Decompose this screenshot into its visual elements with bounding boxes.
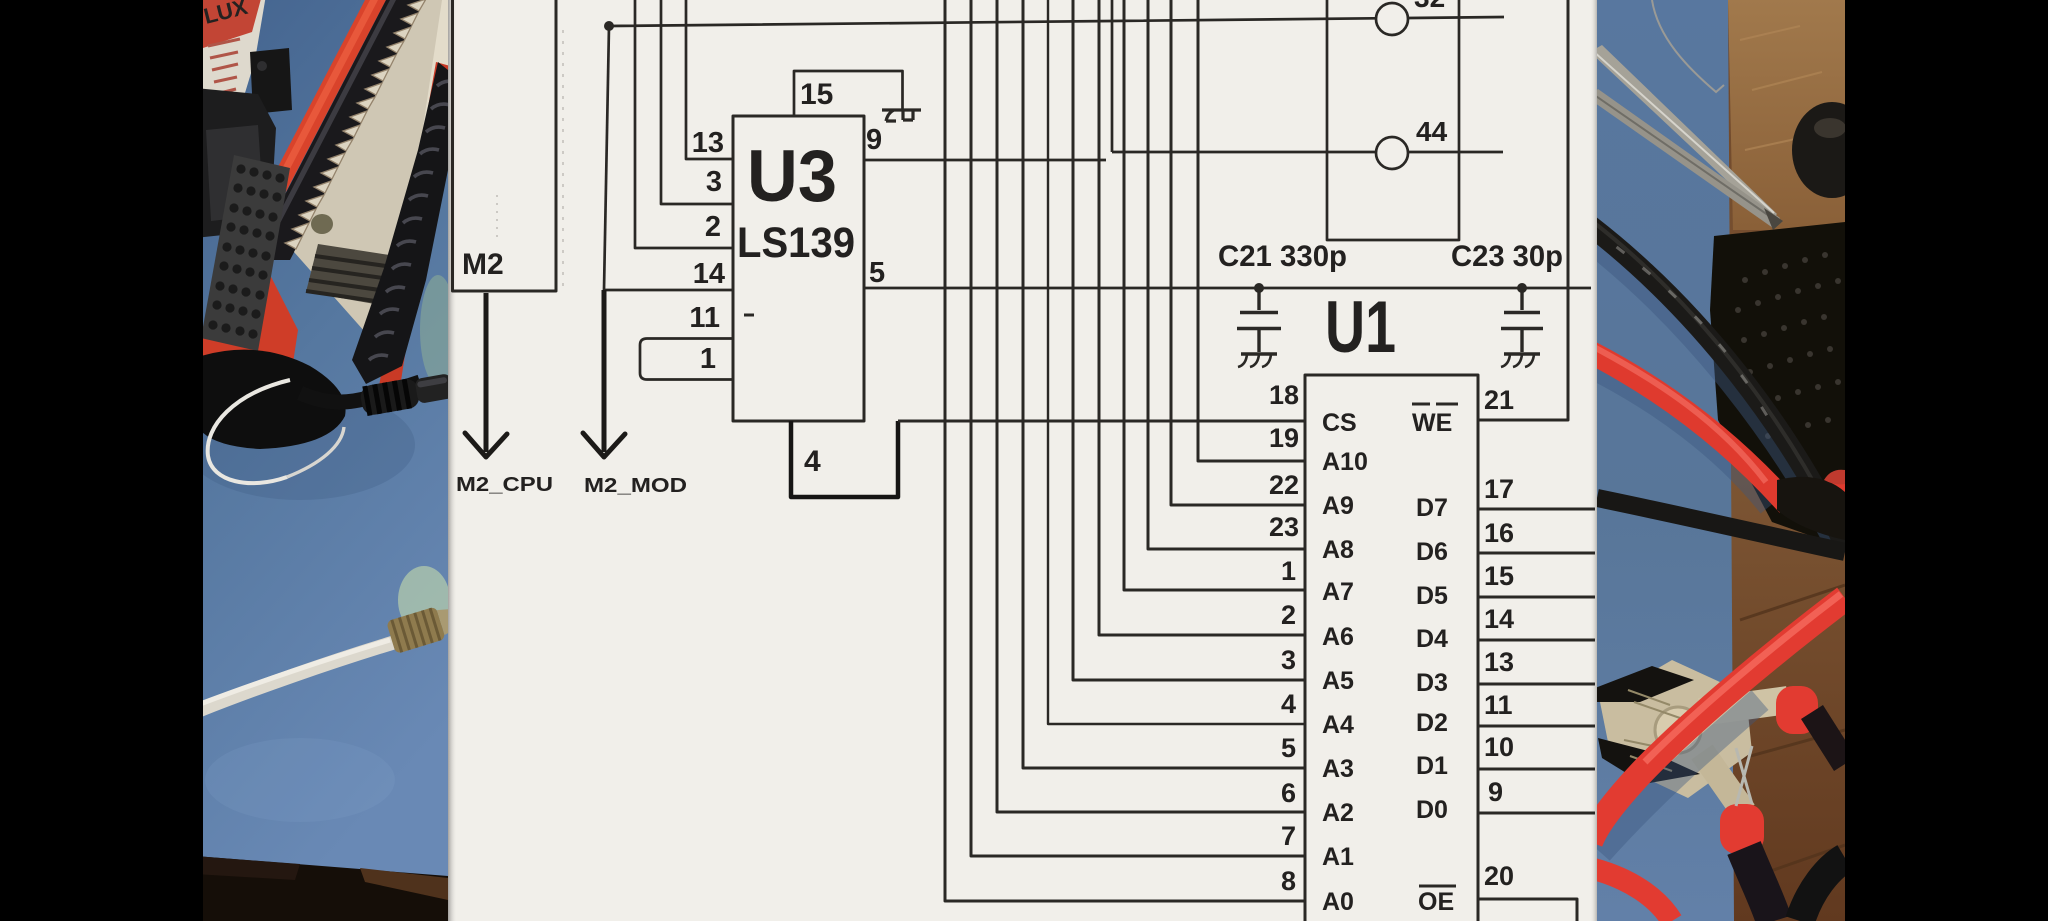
svg-text:4: 4 [1281,689,1296,719]
svg-text:19: 19 [1269,423,1299,453]
svg-text:3: 3 [706,166,722,198]
svg-text:D4: D4 [1416,625,1448,653]
svg-text:A0: A0 [1322,888,1354,916]
svg-text:A3: A3 [1322,755,1354,783]
svg-text:M2: M2 [462,248,504,281]
svg-text:D5: D5 [1416,582,1448,610]
svg-text:22: 22 [1269,470,1299,500]
svg-text:20: 20 [1484,861,1514,891]
svg-text:A7: A7 [1322,578,1354,606]
svg-text:A1: A1 [1322,843,1354,871]
svg-text:14: 14 [1484,604,1514,634]
svg-text:D7: D7 [1416,494,1448,522]
svg-text:5: 5 [869,257,885,289]
svg-text:15: 15 [800,78,833,111]
svg-text:44: 44 [1416,116,1448,147]
svg-text:A5: A5 [1322,667,1354,695]
svg-text:9: 9 [866,124,882,156]
svg-text:WE: WE [1412,409,1452,437]
svg-text:4: 4 [804,445,821,478]
svg-text:A8: A8 [1322,536,1354,564]
svg-text:M2_MOD: M2_MOD [584,474,687,497]
svg-text:1: 1 [1281,556,1296,586]
svg-text:A4: A4 [1322,711,1354,739]
svg-text:11: 11 [689,302,720,334]
svg-text:17: 17 [1484,474,1514,504]
svg-text:CS: CS [1322,409,1357,437]
svg-text:C23 30p: C23 30p [1451,240,1563,273]
svg-text:10: 10 [1484,732,1514,762]
svg-text:D0: D0 [1416,796,1448,824]
svg-text:2: 2 [1281,600,1296,630]
svg-text:U1: U1 [1325,287,1396,368]
svg-text:9: 9 [1488,777,1503,807]
svg-text:A2: A2 [1322,799,1354,827]
svg-text:7: 7 [1281,821,1296,851]
svg-text:13: 13 [692,127,724,159]
svg-text:32: 32 [1414,0,1445,13]
svg-text:3: 3 [1281,645,1296,675]
svg-text:M2_CPU: M2_CPU [456,473,553,496]
svg-text:23: 23 [1269,512,1299,542]
svg-text:15: 15 [1484,561,1514,591]
svg-text:D6: D6 [1416,538,1448,566]
svg-text:C21 330p: C21 330p [1218,240,1347,273]
svg-text:8: 8 [1281,866,1296,896]
svg-text:1: 1 [700,343,716,375]
svg-text:2: 2 [705,211,721,243]
svg-text:14: 14 [693,258,725,290]
svg-text:U3: U3 [747,136,837,217]
svg-text:A10: A10 [1322,448,1368,476]
svg-text:A6: A6 [1322,623,1354,651]
svg-text:18: 18 [1269,380,1299,410]
svg-text:D1: D1 [1416,752,1448,780]
svg-text:A9: A9 [1322,492,1354,520]
svg-text:21: 21 [1484,385,1514,415]
svg-text:5: 5 [1281,733,1296,763]
svg-text:6: 6 [1281,778,1296,808]
svg-text:OE: OE [1418,888,1454,916]
svg-text:D2: D2 [1416,709,1448,737]
svg-text:13: 13 [1484,647,1514,677]
svg-text:16: 16 [1484,518,1514,548]
svg-text:D3: D3 [1416,669,1448,697]
svg-text:11: 11 [1484,690,1513,720]
svg-text:LS139: LS139 [737,219,855,267]
